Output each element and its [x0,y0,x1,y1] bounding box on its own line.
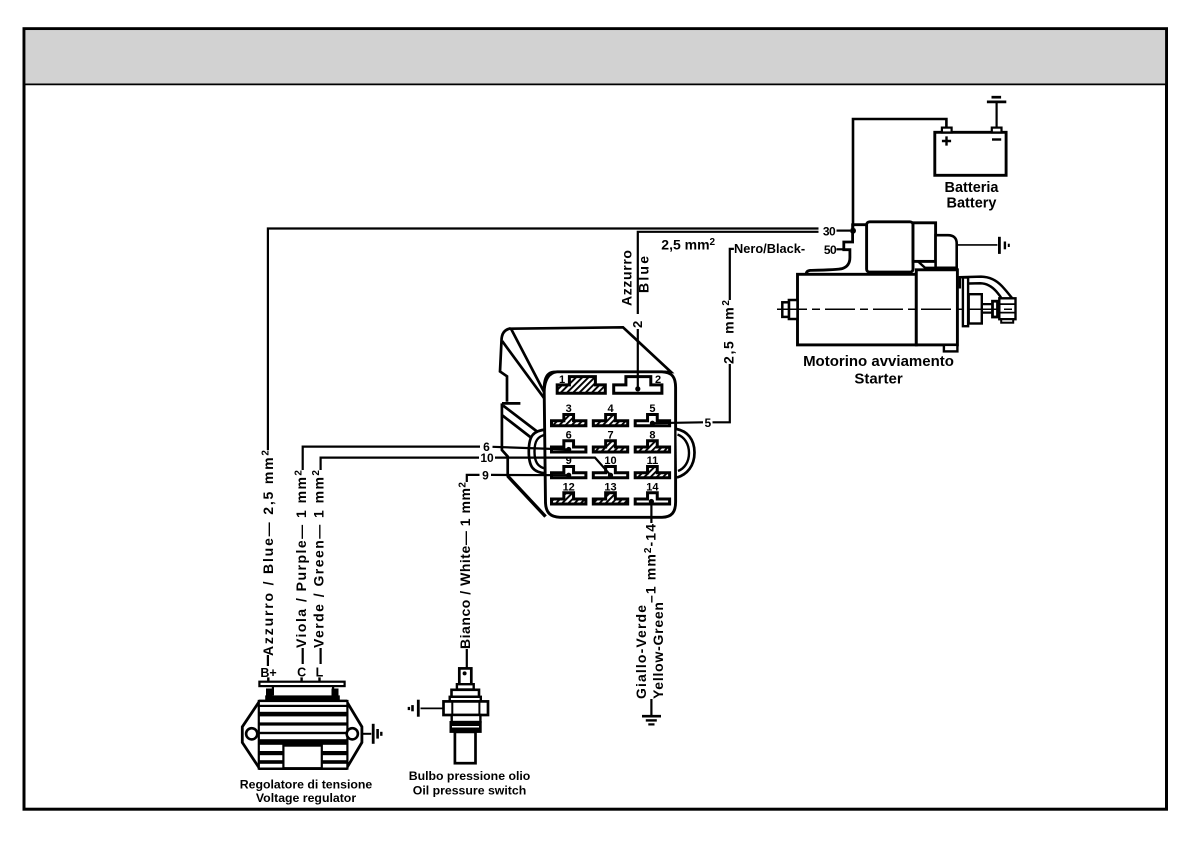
ground battery [987,101,1006,104]
wire bianco/white pin9 to oil switch [466,475,569,669]
svg-text:Viola / Purple— 1 mm2: Viola / Purple— 1 mm2 [293,470,309,648]
svg-text:B+: B+ [260,666,276,680]
battery B1 [935,132,1006,175]
connector body (3d) [500,327,695,517]
svg-text:2: 2 [655,374,661,386]
ground oil switch [417,700,420,717]
connector pin 4 [593,415,627,426]
connector pin 10 [593,467,627,478]
voltage regulator [242,677,362,768]
wire verde/green L to pin10 [320,458,611,664]
svg-text:12: 12 [563,481,575,493]
connector pin 2 [614,377,662,394]
junction node 30 [850,228,856,234]
wire solenoid to ground [957,244,997,246]
svg-text:5: 5 [649,403,655,415]
svg-text:5: 5 [704,416,711,430]
svg-text:6: 6 [566,429,572,441]
svg-text:L: L [316,666,324,680]
svg-text:2,5 mm2: 2,5 mm2 [661,236,715,252]
svg-text:Giallo-Verde: Giallo-Verde [633,605,649,699]
header gray band [25,30,1165,84]
wire azzurro/blue from B+ (upper run) [267,229,819,667]
svg-text:3: 3 [566,403,572,415]
svg-text:14: 14 [646,481,659,493]
connector pin 3 [552,415,586,426]
ground regulator [372,724,375,744]
svg-text:10: 10 [480,451,494,465]
connector pin 13 [593,493,627,504]
wire battery plus to starter 30 [853,118,948,229]
starter motor M1 [782,222,1015,352]
wire viola/purple C to pin6 [302,447,569,664]
svg-text:2,5 mm2: 2,5 mm2 [720,300,736,364]
svg-text:4: 4 [607,403,614,415]
connector pin 12 [552,493,586,504]
svg-text:Starter: Starter [854,371,903,388]
svg-text:Bulbo pressione olio: Bulbo pressione olio [409,769,531,783]
wire giallo-verde pin14 to ground [650,506,652,716]
svg-text:50: 50 [824,243,837,257]
wire battery minus to ground [995,103,997,128]
oil pressure switch [444,668,489,763]
svg-text:Bianco / White— 1 mm2: Bianco / White— 1 mm2 [457,482,473,649]
svg-text:Motorino avviamento: Motorino avviamento [803,353,954,370]
svg-text:13: 13 [604,481,616,493]
connector pin 9 [552,467,586,478]
wire nero/black 50 to pin5 [652,248,734,424]
svg-text:–1 mm2-14: –1 mm2-14 [642,524,658,603]
connector pin 14 [635,493,669,504]
starter center line [777,308,1015,310]
svg-text:7: 7 [607,429,613,441]
svg-text:Regolatore di tensione: Regolatore di tensione [240,777,373,791]
connector pin 1 [557,377,605,394]
svg-text:Azzurro / Blue— 2,5 mm2: Azzurro / Blue— 2,5 mm2 [260,450,276,656]
svg-text:30: 30 [823,225,836,239]
svg-text:Battery: Battery [947,196,997,212]
wire regulator to ground [362,733,371,735]
connector pin 8 [635,441,669,452]
svg-text:Blue: Blue [636,256,652,293]
svg-text:Voltage regulator: Voltage regulator [256,791,356,805]
connector pin 6 [552,441,586,452]
svg-text:Oil pressure switch: Oil pressure switch [413,784,526,798]
ground starter [998,237,1001,254]
wire azzurro/blue from pin2 (lower run) [637,232,819,389]
battery plus sign [942,136,951,145]
svg-text:Verde / Green— 1 mm2: Verde / Green— 1 mm2 [311,470,327,648]
connector pin 7 [593,441,627,452]
svg-text:Azzurro: Azzurro [619,250,635,306]
svg-text:11: 11 [647,455,659,467]
connector pin 5 [635,415,669,426]
svg-text:Nero/Black-: Nero/Black- [734,241,805,256]
svg-text:9: 9 [482,469,489,483]
connector pin 11 [635,467,669,478]
svg-text:2: 2 [630,321,645,328]
battery minus sign [992,138,1001,140]
wire oil switch to ground [421,707,444,709]
svg-text:8: 8 [649,429,655,441]
ground giallo-verde [642,715,661,718]
svg-text:10: 10 [604,455,616,467]
svg-text:Yellow-Green: Yellow-Green [650,602,666,699]
svg-text:C: C [297,666,306,680]
svg-text:Batteria: Batteria [945,180,1000,196]
svg-text:1: 1 [559,374,565,386]
label 2 on pin2 wire [633,315,644,329]
